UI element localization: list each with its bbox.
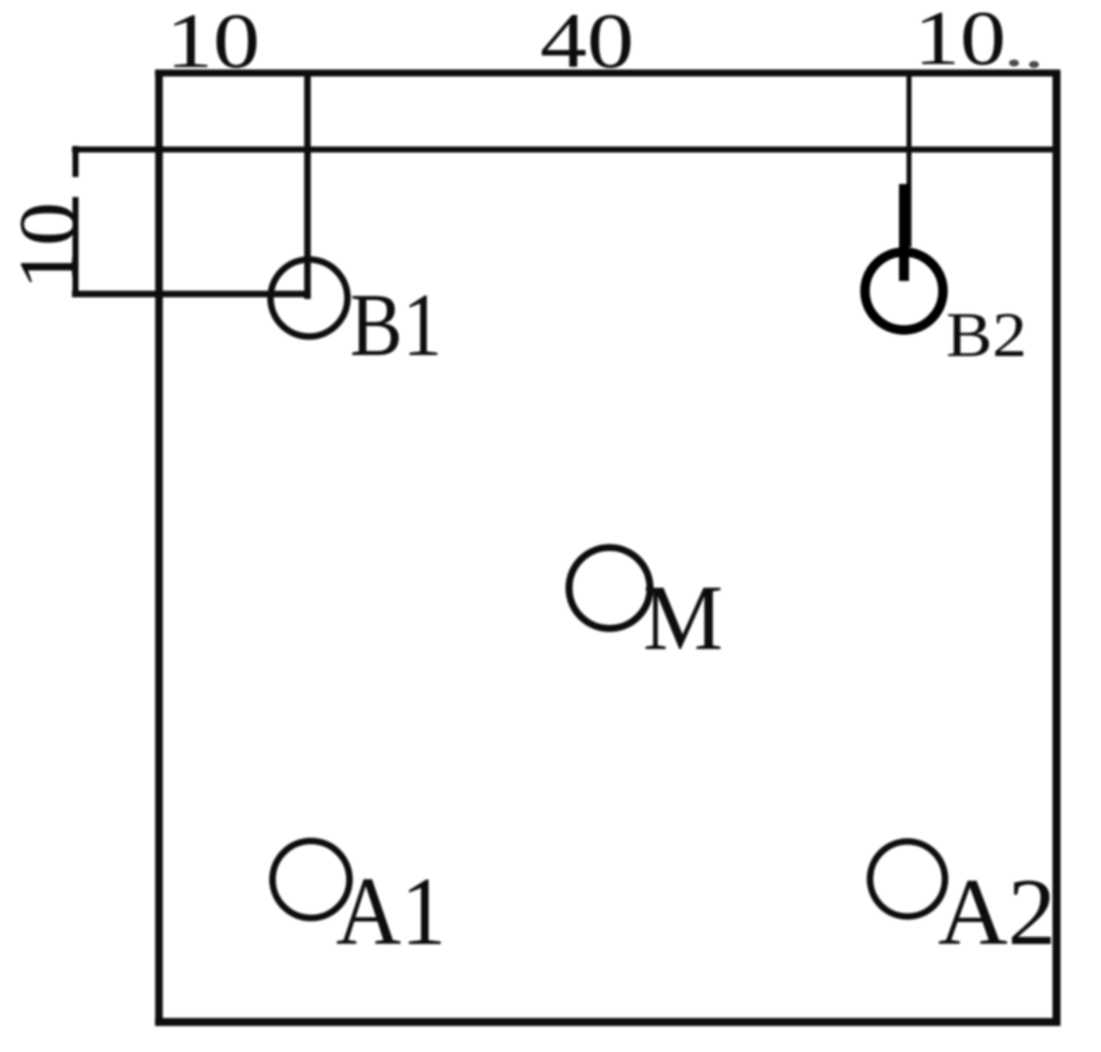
node A1 circle [273,841,350,918]
dot artifact 2 after top-right 10 [1029,61,1039,68]
wire: second horizontal line (bar bottom / rect top) [72,147,1060,153]
node B2 circle (bold) [865,252,943,330]
wire: big square bottom edge [155,1018,1060,1026]
svg-text:10: 10 [166,0,260,84]
node A2 circle [870,842,945,917]
svg-text:A1: A1 [336,858,446,966]
wire: big square right edge [1053,70,1061,1026]
wire: left rectangle left edge lower segment [73,197,79,297]
node M circle [569,548,650,629]
wire: bold vertical stub into B2 [899,184,909,281]
wire: big square top edge [155,70,1060,77]
svg-text:B2: B2 [946,300,1027,370]
wire: left rectangle bottom edge [72,291,309,298]
svg-text:40: 40 [540,0,634,84]
svg-text:M: M [643,567,723,670]
wire: left rectangle left edge upper segment [73,146,79,177]
svg-text:A2: A2 [938,859,1056,965]
dot artifact 1 after top-right 10 [1009,60,1019,67]
wire: thin vertical drop line to B2 [907,70,912,247]
wire: vertical drop line to B1 [304,70,311,299]
wire: big square left edge [155,70,163,1026]
svg-text:10: 10 [2,202,93,290]
node B1 circle [271,260,348,337]
svg-text:B1: B1 [350,276,442,375]
svg-text:10: 10 [914,0,1006,81]
